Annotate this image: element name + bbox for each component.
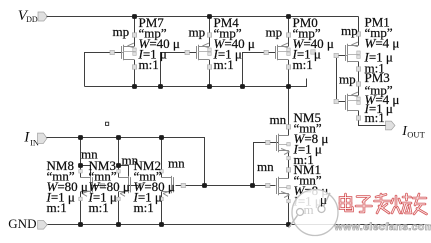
svg-text:GND: GND <box>8 216 36 231</box>
wire NM2 gate wire <box>176 185 205 187</box>
svg-text:m:1: m:1 <box>293 57 313 72</box>
node NM3 gate-drain tie <box>116 163 121 168</box>
port pin IIN <box>38 133 48 143</box>
wire PM7 source <box>134 17 136 47</box>
label block NM2 <box>133 158 175 215</box>
node gate bus junction x134 <box>132 84 137 89</box>
wire PM0 drain <box>288 60 290 87</box>
label block PM1 <box>364 15 400 76</box>
svg-text:m:1: m:1 <box>134 200 154 215</box>
label block PM3 <box>364 70 400 125</box>
transistor PM4 symbol <box>197 43 210 60</box>
port pin VDD <box>38 12 48 21</box>
svg-text:m:1: m:1 <box>47 200 67 215</box>
svg-text:mn: mn <box>122 153 139 168</box>
svg-text:www.elecfans.com: www.elecfans.com <box>334 221 431 233</box>
node NM5 gate junction <box>250 183 255 188</box>
wire IIN rail <box>47 138 205 186</box>
transistor NM3 symbol <box>119 176 131 196</box>
label block NM1 <box>293 162 329 209</box>
wire PM3 drain to IOUT <box>359 111 386 126</box>
wire nmos gate bias <box>205 185 276 187</box>
wire NM5 drain <box>288 87 290 136</box>
wire NM3 gate loop <box>119 166 141 186</box>
svg-text:m:1: m:1 <box>365 110 385 125</box>
label block NM5 <box>293 110 329 167</box>
transistor NM2 symbol <box>162 176 174 196</box>
watermark text <box>340 194 427 214</box>
port pin IOUT <box>386 121 396 130</box>
svg-text:mp: mp <box>339 72 356 87</box>
transistor PM0 symbol <box>276 43 289 60</box>
wire PM4 drain <box>209 60 211 87</box>
watermark logo circle <box>289 190 339 236</box>
wire NM5 gate down <box>254 143 279 186</box>
wire NM2 column <box>161 138 163 225</box>
node bias junction <box>202 183 207 188</box>
svg-text:m:1: m:1 <box>214 57 234 72</box>
wire PM4 gate loop <box>161 53 197 87</box>
svg-text:DD: DD <box>26 15 38 24</box>
node IIN junction x80 <box>78 135 83 140</box>
wire PM4 source <box>209 17 211 47</box>
svg-text:m: m <box>304 202 314 217</box>
node marker <box>106 122 109 125</box>
label block PM0 <box>292 15 334 72</box>
svg-text:mp: mp <box>266 25 283 40</box>
wire PM1-PM3 gate tie <box>337 56 347 102</box>
node GND junction x80 <box>78 222 83 227</box>
node gate bus junction x209 <box>207 84 212 89</box>
wire PM7 drain <box>134 60 136 87</box>
transistor PM1 symbol <box>346 42 359 62</box>
transistor PM7 symbol <box>122 43 135 60</box>
wire NM8 column <box>80 138 82 225</box>
svg-text:mp: mp <box>113 24 130 39</box>
svg-text:OUT: OUT <box>407 130 425 140</box>
wire NM5 source to NM1 drain <box>288 151 290 179</box>
svg-text:W=4 μ: W=4 μ <box>365 36 400 51</box>
label block NM3 <box>88 158 130 215</box>
label block NM8 <box>46 158 88 215</box>
transistor NM5 symbol <box>277 134 290 155</box>
wire NM1 source <box>288 194 290 225</box>
transistor NM1 symbol <box>277 177 290 198</box>
svg-text:mp: mp <box>189 25 206 40</box>
wire pmos gate bus <box>85 79 307 87</box>
svg-text:mn: mn <box>270 112 287 127</box>
node GND junction x118 <box>116 222 121 227</box>
node gate bus junction x160 <box>158 84 163 89</box>
pin bulk net <box>311 50 315 54</box>
node NM8 gate-drain tie <box>78 163 83 168</box>
svg-text:mn: mn <box>168 155 185 170</box>
svg-text:mn: mn <box>257 159 274 174</box>
label block PM7 <box>138 15 180 72</box>
wire PM0 gate loop <box>243 53 276 87</box>
node GND junction x161 <box>159 222 164 227</box>
transistor NM8 symbol <box>81 176 93 196</box>
svg-text:mn: mn <box>81 146 98 161</box>
svg-text:m:1: m:1 <box>89 200 109 215</box>
svg-text:μ: μ <box>320 192 327 207</box>
node gate bus junction x242 <box>240 84 245 89</box>
wire GND rail <box>48 224 425 226</box>
node GND junction x288 <box>286 222 291 227</box>
node VDD junction x288 <box>286 14 291 19</box>
label block PM4 <box>213 15 255 72</box>
wire PM1 drain to PM3 source <box>358 62 360 96</box>
node IIN junction x161 <box>159 135 164 140</box>
node VDD junction x209 <box>207 14 212 19</box>
node VDD junction x134 <box>132 14 137 19</box>
wire PM0 source <box>288 17 290 47</box>
node gate bus junction x288 <box>286 84 291 89</box>
wire PM1 source <box>358 17 360 46</box>
node IIN junction x118 <box>116 135 121 140</box>
wire VDD rail <box>47 16 359 18</box>
port pin GND <box>38 221 48 230</box>
transistor PM3 symbol <box>346 92 359 111</box>
wire NM3 column <box>118 138 120 225</box>
wire NM8 gate loop <box>81 166 103 186</box>
svg-text:m:1: m:1 <box>139 57 159 72</box>
wire PM7 gate loop <box>85 53 123 87</box>
svg-text:mp: mp <box>341 23 358 38</box>
